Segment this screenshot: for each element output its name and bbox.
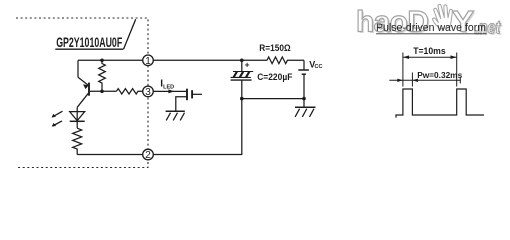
svg-text:Pw=0.32ms: Pw=0.32ms <box>417 70 462 80</box>
dimension extension line T left <box>402 53 404 87</box>
svg-text:CC: CC <box>315 64 323 70</box>
dimension extension line T right <box>456 53 458 87</box>
svg-text:R=150Ω: R=150Ω <box>259 43 290 53</box>
wire V-LED net: pin1 left to transistor emitter corner <box>78 59 143 61</box>
pin 3 node circle <box>143 86 154 97</box>
pin 2 node circle <box>143 149 154 160</box>
transistor Q1 collector diagonal <box>77 93 88 107</box>
T arrowhead right <box>451 55 457 59</box>
battery B1 negative lead <box>303 74 305 98</box>
drive device Q2 left contact bar <box>186 89 188 101</box>
resistor R4 (base to pin3) zigzag <box>116 89 142 94</box>
T dimension arrow line <box>403 56 456 58</box>
battery B1 negative plate <box>302 73 306 75</box>
resistor R1 150ohm zigzag <box>267 57 304 64</box>
transistor Q1 (PNP) emitter lead <box>77 60 79 77</box>
svg-text:T=10ms: T=10ms <box>413 46 446 56</box>
ground G3 hatch strokes <box>295 109 314 117</box>
drive device Q2 right gate bar <box>191 90 193 98</box>
svg-text:+: + <box>245 59 250 69</box>
ground G2 bar <box>166 110 185 112</box>
junction dot base node <box>100 90 104 94</box>
drive device Q2 gate lead <box>193 93 202 95</box>
wire source to ground G2 <box>176 97 187 111</box>
resistor R2 (LED series) zigzag <box>73 128 82 154</box>
transistor Q1 base bar <box>88 83 90 96</box>
sensor outline dashed box (GP2Y1010AU0F package boundary) <box>16 18 148 168</box>
watermark haoDIY.net <box>356 2 503 40</box>
capacitor C1 bottom plate <box>231 79 252 81</box>
svg-text:1: 1 <box>145 56 151 67</box>
wire pin3 to drive device (I_LED path) <box>154 90 187 92</box>
ground G2 hatch strokes <box>166 113 184 121</box>
T arrowhead left <box>403 55 409 59</box>
LED light arrow 1 <box>52 111 62 117</box>
capacitor C1 bottom lead <box>241 80 243 99</box>
wire ground rail <box>242 98 304 100</box>
transistor Q1 emitter diagonal <box>78 77 88 85</box>
wire pin2 external to capacitor column <box>154 99 242 155</box>
ground G3 bar <box>295 106 316 108</box>
I_LED current arrowhead <box>168 89 174 93</box>
Pw arrowhead at right pulse edge <box>412 79 418 82</box>
svg-text:C=220µF: C=220µF <box>257 72 293 82</box>
LED D1 cathode bar <box>70 120 85 122</box>
resistor R3 (base pull-up) lead + zigzag <box>99 60 106 91</box>
battery B1 positive plate (Vcc) <box>298 69 309 71</box>
svg-text:3: 3 <box>145 87 151 98</box>
svg-text:Pulse-driven wave form: Pulse-driven wave form <box>376 22 486 34</box>
wire V-LED net: pin1 right to cap junction and R1 lead <box>154 59 268 61</box>
label underline <box>55 48 123 50</box>
LED D1 triangle <box>70 112 85 121</box>
wire base net <box>90 90 117 92</box>
svg-text:2: 2 <box>145 150 151 161</box>
svg-text:LED: LED <box>163 85 174 91</box>
Pw dimension line <box>389 79 460 81</box>
capacitor C1 hatched plate bottom edge <box>231 76 251 78</box>
capacitor C1 hatched plate top edge <box>233 71 253 73</box>
capacitor C1 hatch strokes <box>234 72 250 78</box>
wire LED-GND net to pin 2 <box>77 154 142 156</box>
waveform pulse train <box>396 89 484 118</box>
junction dot cap top <box>240 59 244 63</box>
junction dot ground rail right <box>302 97 306 101</box>
wire R1 to Vcc supply corner <box>303 60 305 69</box>
junction dot ground rail left <box>240 97 244 101</box>
ground G3 stub <box>303 99 305 108</box>
junction dot R3 top <box>100 59 104 63</box>
transistor Q1 emitter arrowhead (PNP) <box>83 84 89 89</box>
label Pulse-driven wave form <box>376 22 487 34</box>
LED light arrow 2 <box>53 121 62 126</box>
svg-text:GP2Y1010AU0F: GP2Y1010AU0F <box>56 34 122 50</box>
capacitor C1 lead from top wire <box>241 60 243 71</box>
watermark hand glyph <box>430 2 456 30</box>
Pw end tick <box>459 77 461 83</box>
wire collector to LED anode <box>76 107 78 128</box>
Pw arrowhead at left pulse edge <box>397 79 403 82</box>
label leader slash <box>124 19 136 49</box>
pin 1 node circle <box>143 55 154 66</box>
dimension extension line Pw right edge <box>411 73 413 87</box>
